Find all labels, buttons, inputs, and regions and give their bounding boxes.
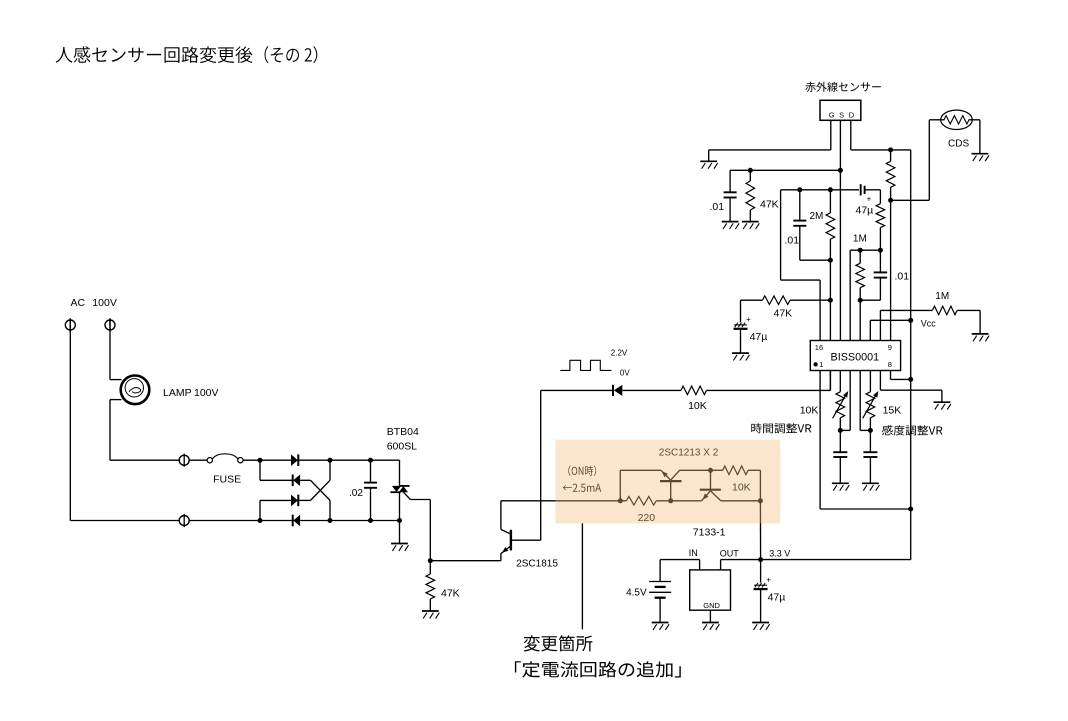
ground 1M bbox=[972, 334, 989, 341]
label 47K top bbox=[774, 308, 793, 320]
wire bridge row2 left bbox=[260, 460, 293, 480]
resistor drain upper bbox=[886, 150, 895, 200]
label 0V bbox=[620, 369, 630, 378]
ic U2 7133-1 box bbox=[690, 570, 731, 610]
diode D3 (bridge row3) bbox=[291, 495, 311, 507]
wire box output down bbox=[759, 501, 761, 560]
wire D pin bbox=[851, 120, 911, 150]
wire T2 down to lamp bbox=[110, 318, 122, 379]
wire OUT pin bbox=[720, 560, 722, 570]
diode D1 (bridge row1) bbox=[260, 454, 330, 466]
svg-text:47K: 47K bbox=[774, 308, 793, 320]
ground battery bbox=[652, 623, 669, 630]
diode D2 (bridge row2) bbox=[293, 475, 311, 487]
wire S junction left bbox=[730, 169, 840, 171]
wire T1 down bbox=[69, 318, 71, 520]
svg-text:1: 1 bbox=[819, 360, 823, 369]
wire diode to 10K bbox=[622, 389, 681, 391]
label G S D bbox=[829, 111, 855, 120]
svg-text:FUSE: FUSE bbox=[213, 474, 241, 486]
wire S pin bbox=[839, 120, 841, 340]
label BTB04 600SL bbox=[387, 426, 419, 453]
svg-text:15K: 15K bbox=[883, 405, 902, 417]
label AC 100V bbox=[71, 297, 117, 309]
wire to 2M node bbox=[800, 189, 831, 191]
highlight box (changed circuit) bbox=[555, 440, 780, 524]
terminal T1 (AC left) bbox=[65, 318, 75, 331]
resistor 220 bbox=[626, 497, 656, 506]
node triac bottom bbox=[397, 518, 402, 523]
wire terminal to bridge bottom bbox=[189, 520, 260, 522]
node cap bottom bbox=[368, 518, 373, 523]
label 1M shunt bbox=[853, 234, 867, 245]
wire collector rail bbox=[501, 500, 620, 502]
wire right rail down bbox=[910, 150, 912, 560]
svg-text:47µ: 47µ bbox=[856, 205, 874, 217]
svg-text:CDS: CDS bbox=[948, 139, 969, 150]
svg-text:+: + bbox=[766, 575, 771, 584]
wire rail into box bbox=[618, 498, 627, 503]
resistor 1M (series) bbox=[876, 190, 885, 250]
label 3.3 V bbox=[769, 549, 790, 559]
label 47K source bbox=[760, 199, 779, 211]
wire drain to pin9 bbox=[890, 200, 892, 340]
ground CDS bbox=[972, 154, 989, 161]
node Q1 base bbox=[668, 498, 673, 503]
ground regulator bbox=[702, 623, 719, 630]
wire 10K down bbox=[759, 470, 761, 501]
wire GND pin bbox=[709, 610, 711, 622]
terminal T2 (AC right) bbox=[105, 318, 115, 331]
node VR1 bbox=[838, 428, 843, 433]
resistor 2M bbox=[826, 190, 835, 260]
resistor 47K pulldown bbox=[426, 561, 435, 611]
wire IN pin bbox=[660, 560, 700, 582]
capacitor .01 (fb) bbox=[793, 190, 806, 260]
svg-text:10K: 10K bbox=[688, 400, 707, 412]
label 時間調整VR bbox=[751, 423, 811, 433]
label .01 source bbox=[710, 201, 725, 213]
wire pin16 bbox=[781, 190, 821, 341]
svg-text:10K: 10K bbox=[800, 405, 819, 417]
node pin1 rail bbox=[908, 507, 913, 512]
wire 220 to Q1 base node bbox=[656, 500, 671, 502]
ground G bbox=[700, 161, 717, 168]
svg-text:.02: .02 bbox=[349, 488, 363, 499]
wire bridge- rail bbox=[330, 520, 400, 522]
ic U1 BISS0001 bbox=[810, 341, 900, 371]
svg-text:LAMP: LAMP bbox=[163, 387, 192, 399]
wire 47K to cap bbox=[741, 300, 763, 322]
label 2SC1815 bbox=[516, 559, 558, 570]
label 2.2V bbox=[611, 348, 628, 357]
label OUT bbox=[720, 549, 740, 559]
capacitor VR2 bbox=[863, 430, 877, 483]
label Vcc bbox=[921, 319, 937, 329]
label 47u left bbox=[750, 331, 768, 343]
svg-text:.01: .01 bbox=[785, 235, 800, 247]
label 4.5V bbox=[626, 587, 647, 598]
label 2M bbox=[810, 211, 824, 222]
capacitor 47u (left) bbox=[734, 315, 752, 329]
svg-text:OUT: OUT bbox=[720, 549, 740, 559]
wire bridge+ rail bbox=[330, 459, 400, 461]
svg-text:2.2V: 2.2V bbox=[611, 348, 628, 357]
node 47K top bbox=[748, 168, 753, 173]
node S junction bbox=[838, 168, 843, 173]
capacitor .01 (peak) bbox=[860, 250, 887, 300]
label 10K box bbox=[732, 482, 751, 494]
svg-text:0V: 0V bbox=[620, 369, 630, 378]
node Vcc bbox=[908, 318, 913, 323]
resistor 47K (source) bbox=[746, 170, 755, 221]
svg-text:G: G bbox=[829, 111, 835, 120]
squarewave symbol bbox=[560, 360, 611, 370]
label LAMP 100V bbox=[163, 387, 219, 399]
wire .01 bottom bbox=[800, 259, 831, 261]
ground pin7 bbox=[934, 402, 951, 409]
node net B bbox=[858, 298, 863, 303]
wire triac gate bbox=[403, 492, 430, 561]
svg-text:1M: 1M bbox=[935, 291, 949, 302]
ground VR1 bbox=[832, 483, 849, 490]
node bridge top-left bbox=[258, 458, 263, 463]
wire pin3 bbox=[839, 371, 841, 392]
resistor 47K (top) bbox=[763, 296, 791, 305]
node 2M top bbox=[828, 187, 833, 192]
ground under 47K bbox=[422, 611, 439, 618]
wire T1 bottom to terminal bbox=[70, 520, 179, 522]
sensor box bbox=[820, 100, 861, 120]
label 47u output bbox=[768, 592, 786, 604]
title text 人感センサー回路変更後（その 2） bbox=[56, 46, 318, 63]
svg-text:D: D bbox=[849, 111, 855, 120]
wire pin5 bbox=[860, 371, 870, 431]
wire pin2 stub bbox=[829, 371, 831, 391]
svg-text:IN: IN bbox=[689, 548, 698, 558]
ground VR2 bbox=[862, 483, 879, 490]
svg-text:AC: AC bbox=[71, 297, 86, 309]
capacitor 47u (series) bbox=[830, 184, 880, 203]
svg-text:Vcc: Vcc bbox=[921, 319, 937, 329]
wire 47u to ground bbox=[752, 589, 769, 630]
label 感度調整VR bbox=[882, 425, 943, 435]
transistor Q3 2SC1815 bbox=[501, 501, 541, 561]
ground 47K source bbox=[742, 222, 759, 229]
wire 1M to ground bbox=[957, 310, 980, 333]
svg-text:47µ: 47µ bbox=[768, 592, 786, 604]
svg-text:S: S bbox=[839, 111, 844, 120]
capacitor .02 bbox=[364, 460, 377, 520]
wire 3.3V rail bbox=[721, 559, 911, 561]
node VR2 bbox=[868, 428, 873, 433]
lamp LAMP 100V bbox=[121, 376, 150, 405]
wire pin13 bbox=[850, 250, 860, 340]
label 10K VR bbox=[800, 405, 819, 417]
node D junction bbox=[888, 147, 893, 152]
wire pin4 bbox=[840, 371, 850, 431]
svg-text:47K: 47K bbox=[441, 588, 460, 600]
label 7133-1 bbox=[693, 527, 726, 539]
diode D5 bbox=[613, 385, 622, 396]
node emitter junction bbox=[428, 558, 433, 563]
label .01 fb bbox=[785, 235, 800, 247]
label 変更箇所 bbox=[524, 635, 593, 651]
node 1M bottom bbox=[878, 248, 883, 253]
svg-text:2SC1815: 2SC1815 bbox=[516, 559, 558, 570]
wire node to node bbox=[860, 249, 880, 251]
wire terminal to fuse bbox=[189, 459, 207, 461]
wire base line left bbox=[541, 389, 613, 391]
node 47K junction bbox=[828, 298, 833, 303]
svg-text:+: + bbox=[867, 195, 872, 204]
svg-text:+: + bbox=[746, 315, 751, 324]
wire node up to Q1 emitter bbox=[620, 470, 661, 501]
svg-text:GND: GND bbox=[703, 601, 720, 610]
node 2M bottom bbox=[828, 258, 833, 263]
label 220 bbox=[638, 512, 656, 524]
svg-text:16: 16 bbox=[815, 343, 823, 352]
wire pin6 bbox=[869, 371, 871, 392]
node net A bbox=[858, 248, 863, 253]
resistor 1M (right) bbox=[932, 306, 957, 315]
wire pin8 bbox=[891, 371, 911, 380]
svg-text:8: 8 bbox=[888, 360, 892, 369]
terminal lower left bbox=[179, 514, 189, 527]
label .02 bbox=[349, 488, 363, 499]
svg-text:.01: .01 bbox=[710, 201, 725, 213]
fuse FUSE bbox=[207, 454, 243, 463]
svg-text:100V: 100V bbox=[92, 297, 117, 309]
diode D4 (bridge row4) bbox=[260, 515, 330, 527]
svg-text:7133-1: 7133-1 bbox=[693, 527, 726, 539]
node pin8 rail bbox=[908, 377, 913, 382]
svg-text:1M: 1M bbox=[853, 234, 867, 245]
wire base up bbox=[540, 390, 542, 540]
node box output bbox=[758, 498, 763, 503]
wire bridge row3 left bbox=[260, 500, 291, 520]
svg-text:3.3 V: 3.3 V bbox=[769, 549, 790, 559]
label 2SC1213 X 2 bbox=[659, 448, 719, 459]
node .01 top bbox=[797, 187, 802, 192]
terminal fuse left bbox=[179, 454, 189, 467]
wire 47K link bbox=[790, 299, 830, 301]
svg-text:47K: 47K bbox=[760, 199, 779, 211]
wire battery to ground bbox=[659, 598, 661, 623]
label 15K VR bbox=[883, 405, 902, 417]
node bridge top-right bbox=[328, 458, 333, 463]
node bridge bottom-left bbox=[258, 518, 263, 523]
varistor VR2 15K bbox=[863, 391, 879, 430]
node Q2 base bbox=[708, 468, 713, 473]
svg-text:BTB04: BTB04 bbox=[387, 426, 419, 438]
battery 4.5V bbox=[649, 582, 671, 598]
wire bridge X diag B bbox=[311, 460, 331, 500]
ground .01 source bbox=[722, 222, 739, 229]
wire pin15 bbox=[829, 260, 831, 340]
node 3.3V cap bbox=[758, 557, 763, 562]
node drain mid bbox=[888, 198, 893, 203]
capacitor 47u (output) bbox=[754, 560, 772, 590]
label IN bbox=[689, 548, 698, 558]
transistor Q2 2SC1213 bbox=[700, 470, 721, 501]
label 47K bbox=[441, 588, 460, 600]
resistor 10K (base line) bbox=[681, 386, 707, 395]
varistor VR1 10K bbox=[833, 391, 849, 430]
label 2.5mA bbox=[563, 484, 602, 492]
photoresistor CDS bbox=[941, 110, 973, 129]
wire rail to Q2 emitter bbox=[671, 500, 702, 502]
capacitor VR1 bbox=[833, 430, 847, 483]
resistor 10K (box) bbox=[711, 466, 761, 475]
label .01 peak bbox=[895, 271, 910, 283]
ground under triac bbox=[391, 521, 408, 551]
triac BTB04 bbox=[390, 460, 409, 520]
svg-text:600SL: 600SL bbox=[387, 441, 418, 453]
wire bridge X diag A bbox=[311, 480, 331, 520]
svg-text:BISS0001: BISS0001 bbox=[831, 352, 880, 364]
wire 10K to pin2 bbox=[707, 371, 831, 391]
svg-text:47µ: 47µ bbox=[750, 331, 768, 343]
wire pin12 bbox=[859, 300, 861, 340]
label 定電流回路の追加 bbox=[515, 661, 681, 677]
wire node to emitter bbox=[430, 560, 501, 562]
wire Q2 collector to 10K node bbox=[721, 500, 761, 502]
wire 47u to ground bbox=[732, 329, 749, 361]
svg-text:9: 9 bbox=[888, 343, 892, 352]
label FUSE bbox=[213, 474, 241, 486]
label 10K bbox=[688, 400, 707, 412]
wire G pin bbox=[709, 120, 831, 161]
wire pin10 bbox=[880, 310, 932, 340]
node bridge bottom-right bbox=[328, 518, 333, 523]
svg-text:4.5V: 4.5V bbox=[626, 587, 647, 598]
leader line bbox=[581, 523, 583, 629]
wire pin1 bbox=[820, 371, 911, 510]
wire fuse to bridge bbox=[243, 459, 260, 461]
svg-text:100V: 100V bbox=[194, 387, 219, 399]
capacitor .01 (source) bbox=[724, 170, 737, 221]
label 1M right bbox=[935, 291, 949, 302]
wire CDS link bbox=[891, 120, 945, 201]
label CDS bbox=[948, 139, 969, 150]
svg-text:.01: .01 bbox=[895, 271, 910, 283]
wire pin7 ground bbox=[880, 371, 942, 402]
wire lamp to fuse bbox=[110, 400, 179, 461]
label ON time bbox=[568, 466, 596, 477]
svg-text:2M: 2M bbox=[810, 211, 824, 222]
transistor Q1 2SC1213 bbox=[660, 470, 682, 501]
wire pin11 Vcc bbox=[870, 320, 910, 340]
label 赤外線センサー bbox=[805, 82, 881, 92]
resistor 1M (shunt) bbox=[856, 250, 865, 300]
wire CDS right to ground bbox=[969, 120, 980, 154]
label 47u series bbox=[856, 205, 874, 217]
node cap top bbox=[368, 458, 373, 463]
wire Q1 collector to Q2 base bbox=[680, 469, 711, 471]
